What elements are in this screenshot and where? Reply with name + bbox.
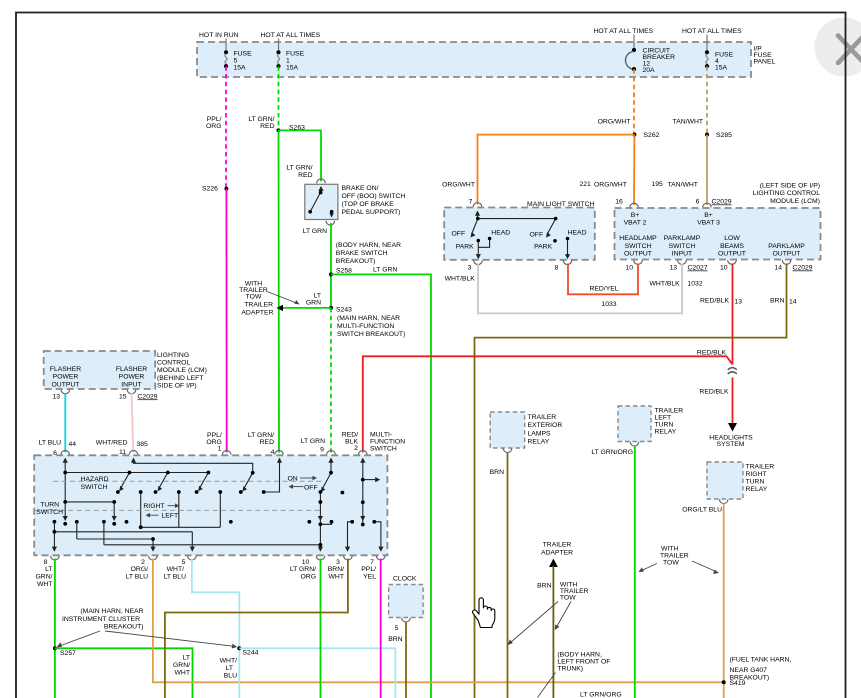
svg-text:LT BLU: LT BLU (39, 440, 62, 447)
svg-text:SWITCH BREAKOUT): SWITCH BREAKOUT) (337, 331, 405, 338)
wire: RED/YEL 1033 (568, 264, 638, 295)
wire: WHT/BLK 1032 (478, 264, 682, 314)
svg-text:TRAILER: TRAILER (528, 414, 557, 421)
svg-text:2: 2 (354, 445, 358, 452)
svg-text:GRN/: GRN/ (173, 662, 190, 669)
svg-text:HEADLAMP: HEADLAMP (619, 235, 657, 242)
svg-text:S244: S244 (243, 650, 259, 657)
svg-text:20A: 20A (643, 67, 656, 74)
svg-text:9: 9 (320, 447, 324, 454)
svg-text:SYSTEM: SYSTEM (717, 441, 745, 448)
svg-text:CONTROL: CONTROL (157, 360, 190, 367)
svg-text:TRUNK): TRUNK) (557, 665, 583, 672)
svg-text:WITH: WITH (661, 546, 678, 553)
wire: LT GRN/ORG pin 10 down (320, 559, 322, 698)
svg-text:14: 14 (774, 265, 782, 272)
svg-text:WHT/: WHT/ (167, 566, 184, 573)
svg-text:(LEFT SIDE OF I/P): (LEFT SIDE OF I/P) (760, 183, 820, 190)
svg-text:ORG/WHT: ORG/WHT (598, 119, 631, 126)
svg-text:LOW: LOW (724, 235, 740, 242)
trailer adapter arrow (541, 542, 573, 557)
svg-text:LT: LT (226, 665, 233, 672)
svg-text:3: 3 (468, 265, 472, 272)
svg-text:LT GRN/: LT GRN/ (248, 432, 274, 439)
svg-text:WHT/BLK: WHT/BLK (650, 280, 681, 287)
svg-text:2: 2 (141, 559, 145, 566)
floating contact dot (341, 491, 345, 495)
svg-text:ORG: ORG (206, 123, 221, 130)
svg-text:RED/BLK: RED/BLK (699, 389, 729, 396)
svg-text:POWER: POWER (53, 374, 79, 381)
svg-text:TRAILER: TRAILER (543, 542, 572, 549)
svg-text:RED: RED (298, 172, 312, 179)
svg-text:PEDAL SUPPORT): PEDAL SUPPORT) (342, 209, 401, 216)
svg-text:LT GRN/: LT GRN/ (248, 116, 274, 123)
svg-text:C2029: C2029 (712, 199, 732, 206)
svg-text:LT GRN/ORG: LT GRN/ORG (580, 692, 622, 698)
hazard switch lever 4 (244, 473, 253, 489)
with trailer tow (right) (660, 546, 689, 567)
svg-text:OFF: OFF (304, 485, 318, 492)
wire: ORG/LT BLU pin 2 down and right to S419 (153, 559, 724, 683)
svg-text:LAMPS: LAMPS (528, 430, 552, 437)
svg-text:LT GRN/: LT GRN/ (290, 566, 316, 573)
svg-text:SWITCH: SWITCH (669, 243, 696, 250)
svg-text:S257: S257 (60, 650, 76, 657)
svg-text:S285: S285 (716, 132, 732, 139)
with trailer tow (center) (560, 582, 589, 602)
inline connector symbol (728, 368, 737, 370)
svg-text:LT: LT (314, 293, 321, 300)
svg-text:7: 7 (469, 199, 473, 206)
svg-text:RED: RED (260, 439, 274, 446)
wire: PPL/ORG solid to MFS pin 1 (225, 189, 227, 453)
svg-text:HOT AT ALL TIMES: HOT AT ALL TIMES (682, 28, 742, 35)
hazard contact to pin 4 (264, 462, 280, 492)
svg-text:PPL/: PPL/ (361, 566, 376, 573)
wire: LT GRN/RED branch to BOO switch (279, 130, 322, 181)
svg-text:LT GRN: LT GRN (303, 228, 327, 235)
svg-text:PARKLAMP: PARKLAMP (664, 235, 701, 242)
hazard switch lever 1 (121, 473, 130, 489)
hazard/turn divider dashes (53, 480, 322, 482)
splice S285 (705, 133, 709, 137)
svg-text:RELAY: RELAY (655, 428, 677, 435)
svg-text:TURN: TURN (746, 479, 765, 486)
svg-text:RIGHT: RIGHT (143, 503, 164, 510)
svg-text:SWITCH: SWITCH (370, 446, 397, 453)
wire: BRN/WHT pin 3 down/left/down (165, 559, 348, 698)
svg-text:FUNCTION: FUNCTION (370, 439, 405, 446)
svg-text:ORG/WHT: ORG/WHT (594, 182, 627, 189)
turn switch wiper feed (65, 502, 114, 518)
splice S244 (237, 646, 241, 650)
svg-text:195: 195 (652, 181, 664, 188)
wire: BRN from LCM parklamp output (475, 264, 787, 698)
wire: LT GRN right then down page (331, 274, 431, 698)
svg-text:VBAT 3: VBAT 3 (697, 220, 720, 227)
svg-text:ON: ON (288, 476, 298, 483)
svg-text:HAZARD: HAZARD (81, 476, 109, 483)
svg-text:RED: RED (260, 123, 274, 130)
svg-text:13: 13 (669, 265, 677, 272)
svg-text:SIDE OF I/P): SIDE OF I/P) (157, 383, 197, 390)
wire: PPL/YEL pin 7 down (380, 559, 382, 698)
wire to pin 2 (77, 522, 153, 549)
splice S226 (224, 187, 228, 191)
svg-text:MODULE (LCM): MODULE (LCM) (157, 367, 207, 374)
svg-text:10: 10 (625, 265, 633, 272)
svg-text:6: 6 (696, 199, 700, 206)
body harn annotation (557, 651, 610, 672)
breakout annotation (62, 608, 144, 631)
svg-text:LT BLU: LT BLU (126, 574, 149, 581)
svg-text:(MAIN HARN, NEAR: (MAIN HARN, NEAR (80, 608, 143, 615)
svg-text:(MAIN HARN, NEAR: (MAIN HARN, NEAR (337, 315, 400, 322)
svg-text:BRN/: BRN/ (328, 566, 344, 573)
svg-text:(TOP OF BRAKE: (TOP OF BRAKE (342, 201, 395, 208)
svg-text:5: 5 (395, 625, 399, 632)
svg-text:OFF: OFF (452, 231, 466, 238)
svg-text:PANEL: PANEL (754, 59, 776, 66)
wire: WHT/LT BLU branch right/down (239, 648, 395, 698)
svg-text:TAN/WHT: TAN/WHT (673, 119, 703, 126)
svg-text:HOT AT ALL TIMES: HOT AT ALL TIMES (261, 32, 321, 39)
I/P fuse panel box (197, 42, 751, 77)
svg-text:POWER: POWER (119, 374, 145, 381)
svg-text:8: 8 (555, 265, 559, 272)
svg-text:BRAKE ON/: BRAKE ON/ (342, 185, 379, 192)
svg-text:ORG/LT BLU: ORG/LT BLU (682, 507, 722, 514)
svg-text:BREAKOUT): BREAKOUT) (104, 624, 144, 631)
splice S263 (277, 128, 281, 132)
svg-text:LT GRN: LT GRN (373, 267, 397, 274)
svg-text:RELAY: RELAY (528, 439, 550, 446)
svg-text:S262: S262 (644, 132, 660, 139)
I/P fuse panel label (754, 46, 776, 66)
svg-text:HEAD: HEAD (568, 229, 587, 236)
svg-text:SWITCH: SWITCH (36, 509, 63, 516)
wire: ORG/WHT to LCM pin 16 (633, 135, 635, 205)
splice S262 (632, 133, 636, 137)
svg-text:BREAKOUT): BREAKOUT) (730, 675, 770, 682)
svg-text:TRAILER: TRAILER (244, 302, 273, 309)
svg-text:7: 7 (370, 559, 374, 566)
close button (815, 18, 861, 77)
svg-text:OUTPUT: OUTPUT (52, 381, 80, 388)
svg-text:PPL/: PPL/ (207, 432, 222, 439)
wire to pin 8 and pin 5 (54, 522, 192, 549)
svg-text:TRAILER: TRAILER (655, 407, 684, 414)
svg-text:INPUT: INPUT (672, 251, 692, 258)
svg-text:13: 13 (52, 393, 60, 400)
fuse 4 (705, 50, 734, 71)
svg-text:FLASHER: FLASHER (116, 366, 147, 373)
svg-text:ORG: ORG (301, 574, 316, 581)
svg-text:15A: 15A (234, 65, 247, 72)
svg-text:10: 10 (720, 265, 728, 272)
svg-text:15: 15 (119, 393, 127, 400)
svg-text:OUTPUT: OUTPUT (624, 251, 652, 258)
svg-text:HOT AT ALL TIMES: HOT AT ALL TIMES (594, 28, 654, 35)
on/off switch from pin 9 (322, 462, 331, 490)
svg-text:PARK: PARK (456, 244, 474, 251)
svg-text:MULTI-: MULTI- (370, 432, 392, 439)
wire: LT GRN from BOO to S258/S243 (330, 223, 332, 308)
svg-text:TOW: TOW (663, 560, 679, 567)
circuit numbers row (442, 181, 732, 206)
svg-text:VBAT 2: VBAT 2 (624, 220, 647, 227)
svg-text:RED/BLK: RED/BLK (697, 350, 727, 357)
label leads (633, 35, 635, 50)
svg-text:NEAR G407: NEAR G407 (730, 667, 768, 674)
svg-text:MULTI-FUNCTION: MULTI-FUNCTION (337, 323, 394, 330)
svg-text:44: 44 (69, 441, 77, 448)
svg-text:(BODY HARN,: (BODY HARN, (557, 651, 602, 658)
svg-text:B+: B+ (704, 212, 713, 219)
turn switch contact row (53, 520, 57, 524)
svg-text:LT BLU: LT BLU (164, 574, 187, 581)
splice S419 (722, 680, 726, 684)
svg-text:16: 16 (615, 199, 623, 206)
svg-text:ORG/: ORG/ (131, 566, 148, 573)
svg-text:LT: LT (45, 566, 52, 573)
svg-text:SWITCH: SWITCH (625, 243, 652, 250)
svg-text:TURN: TURN (40, 502, 59, 509)
svg-text:INSTRUMENT CLUSTER: INSTRUMENT CLUSTER (62, 616, 140, 623)
svg-text:1: 1 (218, 446, 222, 453)
wire: RED/BLK from LCM low beams (732, 264, 734, 365)
wire: LT GRN dashed from S243 to MFS pin 9 (330, 308, 332, 453)
svg-text:385: 385 (137, 441, 149, 448)
svg-text:S258: S258 (336, 268, 352, 275)
svg-text:RIGHT: RIGHT (746, 471, 767, 478)
wire to pin 10 wiper (104, 492, 332, 549)
hazard contact bus (141, 492, 221, 527)
wire: ORG/LT BLU relay down (723, 504, 725, 698)
contact to pin 7 (374, 522, 381, 549)
svg-text:TRAILER: TRAILER (660, 553, 689, 560)
annotation arrow (267, 292, 297, 304)
wire: RED/BLK horizontal to MFS pin 2 (363, 356, 733, 452)
svg-text:WHT: WHT (329, 574, 344, 581)
svg-text:FLASHER: FLASHER (50, 366, 81, 373)
svg-text:C2029: C2029 (138, 393, 158, 400)
svg-text:PARK: PARK (534, 244, 552, 251)
svg-text:LEFT: LEFT (655, 414, 672, 421)
svg-text:(BODY HARN, NEAR: (BODY HARN, NEAR (336, 242, 401, 249)
svg-text:WHT/RED: WHT/RED (96, 440, 128, 447)
bottom labels (173, 655, 237, 680)
svg-text:B+: B+ (631, 212, 640, 219)
svg-text:FUSE: FUSE (234, 51, 253, 58)
svg-text:HEAD: HEAD (491, 229, 510, 236)
wire: WHT/RED to MFS pin 11 (132, 393, 134, 453)
splice S258 (329, 272, 333, 276)
MFS bottom wire labels (36, 566, 377, 588)
svg-text:OFF: OFF (530, 232, 544, 239)
svg-text:C2029: C2029 (793, 265, 813, 272)
wire: LT GRN/WHT branch right/down (55, 648, 193, 698)
trailer left turn relay (618, 406, 651, 442)
fuse 5 (224, 39, 252, 72)
svg-text:BRAKE SWITCH: BRAKE SWITCH (336, 250, 388, 257)
svg-text:1: 1 (286, 58, 290, 65)
svg-text:10: 10 (302, 559, 310, 566)
svg-text:(BEHIND LEFT: (BEHIND LEFT (157, 375, 203, 382)
svg-text:RED/YEL: RED/YEL (589, 285, 618, 292)
svg-text:INPUT: INPUT (121, 381, 141, 388)
svg-text:OUTPUT: OUTPUT (718, 251, 746, 258)
hazard switch lever 3 (199, 473, 208, 489)
wire: LT BLU cyan to MFS pin 6 (64, 393, 66, 453)
wire: TAN/WHT to LCM pin 6 (706, 135, 708, 205)
svg-text:WHT: WHT (37, 581, 52, 588)
hazard switch feed from pin 6 (65, 462, 208, 502)
wire: LT GRN/RED solid to MFS pin 4 (278, 130, 281, 452)
svg-text:LIGHTING: LIGHTING (157, 352, 189, 359)
svg-text:BREAKOUT): BREAKOUT) (336, 258, 376, 265)
svg-text:PPL/: PPL/ (207, 116, 222, 123)
svg-text:ORG/WHT: ORG/WHT (442, 182, 475, 189)
wire: RED/BLK to headlights system (732, 378, 734, 425)
svg-text:(FUEL TANK HARN,: (FUEL TANK HARN, (730, 657, 792, 664)
svg-text:5: 5 (234, 58, 238, 65)
hazard switch feed from pin 11 (134, 462, 253, 473)
trailer right turn relay (707, 462, 743, 499)
svg-text:EXTERIOR: EXTERIOR (528, 422, 563, 429)
svg-text:SWITCH: SWITCH (81, 484, 108, 491)
fuse 1 (276, 39, 304, 72)
internal labels (36, 476, 317, 520)
wire: WHT/LT BLU pin 5 to S244 (192, 559, 239, 698)
svg-text:LT: LT (183, 655, 190, 662)
svg-text:YEL: YEL (363, 574, 376, 581)
mouse cursor (473, 598, 495, 628)
svg-text:BLU: BLU (224, 673, 237, 680)
svg-text:RED/BLK: RED/BLK (700, 298, 730, 305)
svg-text:S226: S226 (202, 186, 218, 193)
svg-text:8: 8 (44, 559, 48, 566)
svg-text:CLOCK: CLOCK (393, 575, 417, 582)
wire: trailer adapter branch (green, arrow left) (282, 307, 332, 309)
svg-text:C2027: C2027 (688, 265, 708, 272)
svg-text:5: 5 (182, 559, 186, 566)
wire: LT GRN/WHT pin 8 down (54, 559, 56, 698)
svg-text:WHT/BLK: WHT/BLK (445, 276, 476, 283)
svg-text:S243: S243 (336, 307, 352, 314)
svg-text:TOW: TOW (246, 294, 262, 301)
svg-text:PARKLAMP: PARKLAMP (768, 243, 805, 250)
svg-text:BRN: BRN (388, 636, 402, 643)
svg-text:GRN: GRN (306, 300, 321, 307)
svg-text:BRN: BRN (770, 298, 784, 305)
wire: BRN clock down (405, 622, 407, 698)
svg-text:WHT: WHT (175, 670, 190, 677)
label arrows (148, 478, 314, 515)
svg-text:MODULE (LCM): MODULE (LCM) (770, 198, 820, 205)
svg-text:15A: 15A (715, 65, 728, 72)
svg-text:TAN/WHT: TAN/WHT (668, 182, 698, 189)
svg-text:BRN: BRN (490, 469, 504, 476)
svg-text:ADAPTER: ADAPTER (241, 310, 273, 317)
svg-text:BEAMS: BEAMS (720, 243, 744, 250)
svg-text:LT GRN/: LT GRN/ (286, 165, 312, 172)
circuit breaker 12 (626, 48, 676, 75)
svg-text:TURN: TURN (655, 421, 674, 428)
svg-text:HOT IN RUN: HOT IN RUN (199, 32, 239, 39)
svg-text:BRN: BRN (537, 583, 551, 590)
contact to pin 3 (348, 522, 353, 549)
svg-text:RELAY: RELAY (746, 486, 768, 493)
svg-text:OFF (BOO) SWITCH: OFF (BOO) SWITCH (342, 193, 406, 200)
svg-text:13: 13 (735, 298, 743, 305)
svg-text:LIGHTING CONTROL: LIGHTING CONTROL (753, 190, 820, 197)
splice S243 (329, 306, 333, 310)
svg-text:1033: 1033 (601, 301, 616, 308)
wire: LT GRN/ORG relay down (634, 446, 636, 698)
svg-text:LEFT FRONT OF: LEFT FRONT OF (557, 658, 610, 665)
svg-text:LEFT: LEFT (162, 513, 179, 520)
svg-text:RED/: RED/ (342, 432, 358, 439)
wire: ORG/WHT to MLS pin 7 (478, 135, 635, 205)
splice S257 (53, 646, 57, 650)
svg-text:1032: 1032 (688, 280, 703, 287)
trailer exterior lamps relay (490, 412, 524, 448)
svg-text:LT GRN: LT GRN (301, 438, 325, 445)
svg-text:221: 221 (580, 181, 592, 188)
hazard switch lever 2 (159, 473, 168, 489)
MFS bottom pin numbers (44, 559, 375, 566)
svg-text:LT GRN/ORG: LT GRN/ORG (591, 449, 633, 456)
wire: BRN relay down (507, 453, 509, 698)
svg-text:OUTPUT: OUTPUT (773, 251, 801, 258)
pin 2 wiper column (363, 462, 377, 525)
svg-text:15A: 15A (286, 65, 299, 72)
svg-text:ADAPTER: ADAPTER (541, 550, 573, 557)
svg-text:GRN/: GRN/ (36, 574, 53, 581)
svg-text:FUSE: FUSE (286, 51, 305, 58)
svg-text:3: 3 (336, 559, 340, 566)
svg-text:TOW: TOW (560, 595, 576, 602)
svg-text:TRAILER: TRAILER (746, 464, 775, 471)
svg-text:WHT/: WHT/ (220, 658, 237, 665)
svg-text:14: 14 (789, 298, 797, 305)
